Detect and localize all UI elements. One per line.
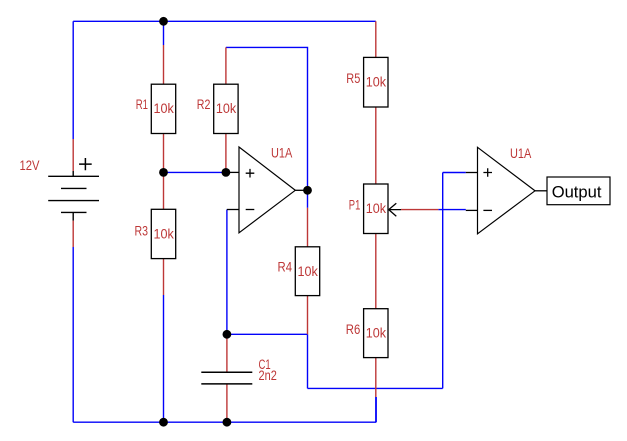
output box <box>547 177 610 205</box>
svg-text:U1A: U1A <box>271 145 292 160</box>
resistor R5 <box>364 57 388 107</box>
lead R5 top <box>375 21 377 57</box>
op-amp U1A first stage plus symbol <box>246 169 255 178</box>
wire R4 node down <box>307 334 309 388</box>
svg-text:P1: P1 <box>349 197 361 212</box>
op-amp U1A first stage minus symbol <box>246 209 255 211</box>
svg-text:U1A: U1A <box>510 146 531 161</box>
lead C1 top <box>226 334 228 372</box>
wire ground rail up to R6 bottom <box>375 397 377 422</box>
pin P1 wiper black stub and arrowhead <box>389 203 401 216</box>
svg-text:10k: 10k <box>216 101 237 116</box>
svg-text:R1: R1 <box>136 97 148 112</box>
op-amp U1A second stage minus symbol <box>483 209 492 211</box>
lead R4 bottom <box>307 296 309 335</box>
wire C1 node to R4 bottom <box>227 333 308 335</box>
svg-text:10k: 10k <box>298 264 319 279</box>
pin U1A minus input stub <box>227 209 239 211</box>
wire battery bottom to ground rail <box>72 247 74 422</box>
svg-text:10k: 10k <box>154 101 175 116</box>
resistor R4 <box>295 247 319 296</box>
node junction dot plus input <box>222 168 231 177</box>
lead R5 bottom to P1 top <box>375 107 377 184</box>
wire left rail vertical <box>72 21 74 139</box>
op-amp U1A second stage triangle <box>478 147 536 234</box>
wire node row between R1 and op-amp plus input <box>164 171 226 173</box>
lead C1 bottom <box>226 384 228 422</box>
pin U1A-2 output stub <box>535 190 547 192</box>
svg-text:10k: 10k <box>366 74 387 89</box>
lead R1 bottom to R3 top <box>163 134 165 210</box>
node junction dot top rail <box>159 17 168 26</box>
lead R3 bottom <box>163 259 165 295</box>
svg-text:10k: 10k <box>366 326 387 341</box>
wire up to U1A-2 plus input <box>442 173 444 389</box>
wire top to R1 <box>163 21 165 45</box>
wire ground rail horizontal <box>73 421 376 423</box>
wire wiper blue segment <box>438 209 466 211</box>
capacitor C1 plates <box>201 372 252 384</box>
lead battery top red <box>72 139 74 171</box>
svg-text:10k: 10k <box>366 201 387 216</box>
svg-text:Output: Output <box>552 182 602 201</box>
wire R6 bottom blue segment <box>375 397 377 422</box>
svg-text:R2: R2 <box>197 97 211 112</box>
svg-text:10k: 10k <box>154 226 175 241</box>
lead R2 bottom to node <box>225 134 227 173</box>
op-amp U1A first stage triangle <box>239 147 295 233</box>
battery plus sign <box>79 158 92 170</box>
svg-text:R3: R3 <box>135 224 149 239</box>
pin U1A output stub <box>295 189 307 191</box>
potentiometer P1 body <box>364 184 388 234</box>
wire U1A output down to R4 lead <box>307 190 309 208</box>
svg-text:12V: 12V <box>20 158 40 173</box>
node junction dot C1 top <box>223 330 232 339</box>
resistor R1 <box>151 84 175 133</box>
node junction dot ground rail left <box>159 418 168 427</box>
lead R6 bottom red <box>375 358 377 397</box>
wire across to second op-amp column <box>308 387 443 389</box>
lead R1 top <box>163 45 165 84</box>
node junction dot R1-R3 <box>159 168 168 177</box>
node junction dot ground rail C1 <box>223 418 232 427</box>
wire top rail horizontal <box>73 20 376 22</box>
lead R2 top <box>225 47 227 84</box>
resistor R2 <box>214 84 238 133</box>
resistor R3 <box>151 209 175 258</box>
lead P1 bottom to R6 top <box>375 234 377 309</box>
lead P1 wiper red segment <box>401 209 438 211</box>
op-amp U1A second stage plus symbol <box>483 168 492 177</box>
wire R3 bottom to ground rail <box>163 295 165 422</box>
pin U1A-2 plus input stub <box>466 172 478 174</box>
node junction dot U1A output <box>303 186 312 195</box>
svg-text:2n2: 2n2 <box>259 368 277 383</box>
svg-text:R6: R6 <box>346 322 361 337</box>
pin U1A plus input stub <box>229 171 239 173</box>
wire U1A minus input down to C1 node <box>226 210 228 335</box>
lead battery bottom red <box>72 221 74 247</box>
svg-text:R4: R4 <box>278 260 293 275</box>
battery B1 12V <box>48 171 99 221</box>
wire feedback from U1A output up and left to R2 <box>226 47 308 190</box>
wire into U1A-2 plus input <box>443 172 466 174</box>
svg-text:R5: R5 <box>346 71 360 86</box>
lead R4 top <box>307 208 309 247</box>
pin U1A-2 minus input stub <box>466 209 478 211</box>
resistor R6 <box>364 309 388 358</box>
